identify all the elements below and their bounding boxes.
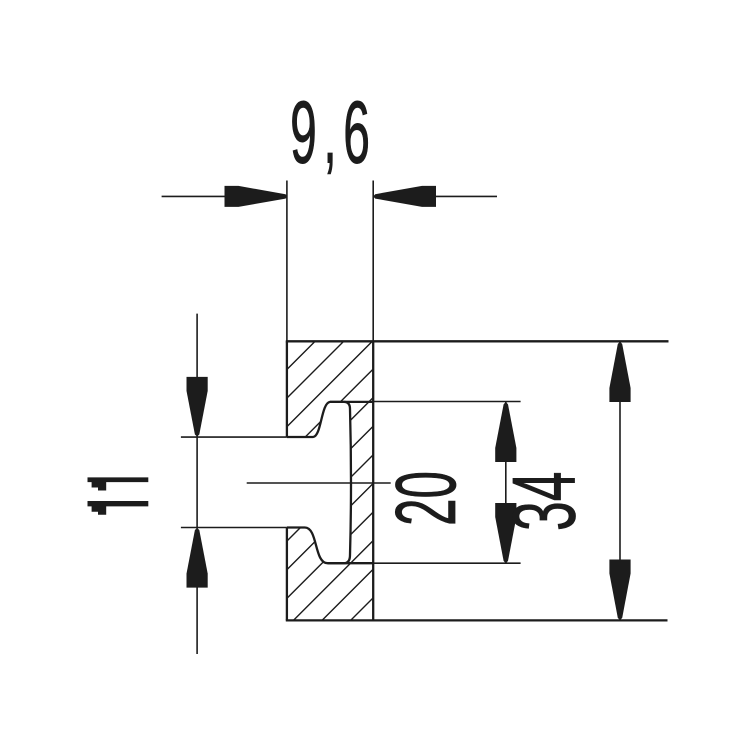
svg-text:34: 34 (494, 472, 593, 531)
left edge lower segment (286, 528, 288, 621)
extension line left (width 9,6) (286, 181, 288, 342)
extension line 11 bottom (181, 527, 287, 529)
T-slot profile (287, 402, 351, 563)
arrow 11 top (points down) (187, 377, 208, 437)
bottom edge + 34 bottom extension (286, 619, 668, 621)
dim line 34 (vertical) (619, 341, 621, 620)
svg-text:20: 20 (378, 471, 473, 526)
dim line 9,6 right part (373, 195, 498, 197)
part outline (thick) (286, 341, 669, 620)
dim line 20 (vertical) (505, 402, 507, 564)
extension line 20 top (374, 401, 521, 403)
arrow 11 bottom (points up) (187, 528, 208, 588)
slot top edge through web (330, 401, 374, 403)
svg-text:9,6: 9,6 (290, 84, 376, 182)
arrow 20 bottom (points down) (495, 503, 516, 564)
left edge upper segment (286, 341, 288, 437)
arrow 34 bottom (points down) (609, 560, 630, 621)
thin dimension / extension lines (162, 181, 620, 655)
extension line right (width 9,6) (372, 181, 374, 342)
dim line 11 (vertical) (196, 314, 198, 654)
right edge (372, 341, 374, 620)
centerline of slot (247, 482, 391, 484)
dimension text 11 (rotated, drawn as paths: digit 1 upper (88, 477, 149, 514)
dim line 9,6 left part (162, 195, 288, 197)
arrow 9,6 left (points right) (225, 186, 288, 207)
arrowheads (187, 186, 631, 620)
section hatching 45deg (26, 330, 669, 630)
extension line 20 bottom (374, 562, 521, 564)
slot bottom edge through web (328, 562, 374, 564)
top edge + 34 top extension (286, 340, 669, 342)
arrow 9,6 right (points left) (373, 186, 436, 207)
arrow 34 top (points up) (609, 342, 630, 403)
extension line 11 top (181, 436, 287, 438)
arrow 20 top (points up) (495, 402, 516, 462)
digit 1 lower (88, 501, 149, 515)
